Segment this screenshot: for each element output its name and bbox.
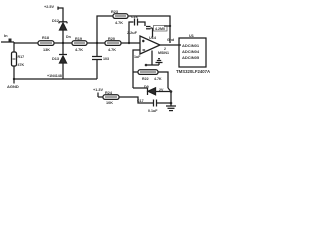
wire bias to R24 xyxy=(98,96,103,98)
svg-text:R19: R19 xyxy=(75,37,82,41)
svg-text:47K: 47K xyxy=(18,63,25,67)
svg-text:R20: R20 xyxy=(108,37,115,41)
pin stub xyxy=(179,44,181,46)
svg-text:+1N4148: +1N4148 xyxy=(47,74,62,78)
svg-text:TMS320LF2407A: TMS320LF2407A xyxy=(176,69,210,74)
svg-text:D12: D12 xyxy=(52,19,59,23)
svg-text:2: 2 xyxy=(164,47,166,51)
svg-text:C16: C16 xyxy=(131,15,138,19)
svg-text:R18: R18 xyxy=(42,36,49,40)
wire input to R18 xyxy=(14,42,38,44)
power +2.5V terminal xyxy=(57,7,59,10)
svg-text:2.2uF: 2.2uF xyxy=(127,31,138,35)
svg-text:R24: R24 xyxy=(105,91,113,95)
svg-text:R17: R17 xyxy=(18,55,25,59)
svg-text:Gnd: Gnd xyxy=(167,38,174,42)
svg-text:D9: D9 xyxy=(144,85,149,89)
wire diode to rail xyxy=(155,91,171,93)
wire node A up to feedback xyxy=(97,16,113,43)
node A junction xyxy=(96,42,98,44)
wire node B up to D12 xyxy=(62,30,64,43)
IC U1 box xyxy=(179,38,206,67)
svg-text:4.7K: 4.7K xyxy=(115,21,123,25)
resistor R23 xyxy=(113,14,128,19)
node ground junction xyxy=(13,78,15,80)
node C junction xyxy=(128,42,130,44)
svg-text:C17: C17 xyxy=(137,99,144,103)
wire node B down to D13 xyxy=(62,43,64,54)
svg-text:ADCIN04: ADCIN04 xyxy=(182,49,200,54)
svg-text:4.7K: 4.7K xyxy=(75,48,83,52)
svg-text:Dn: Dn xyxy=(66,35,71,39)
wire D12 to +2.5V xyxy=(58,8,63,22)
wire op-amp output xyxy=(160,44,179,46)
resistor R18 xyxy=(38,41,54,46)
node feedback tick xyxy=(164,25,171,27)
svg-text:ADCIN01: ADCIN01 xyxy=(182,43,200,48)
wire R23 to output rail xyxy=(128,16,170,43)
wire R18 to node B xyxy=(54,42,72,44)
ground small xyxy=(156,59,163,65)
wire feedback loop xyxy=(133,71,138,73)
svg-text:MSIN1: MSIN1 xyxy=(158,51,169,55)
svg-text:In: In xyxy=(4,33,8,38)
svg-text:4.7K: 4.7K xyxy=(154,77,162,81)
svg-text:2V: 2V xyxy=(159,88,164,92)
wire decoupling to op-amp top xyxy=(152,28,154,38)
wire D13 to AGND rail xyxy=(62,63,64,79)
node rail dot2 xyxy=(170,102,173,105)
node power dot xyxy=(145,64,148,67)
svg-text:R22: R22 xyxy=(142,77,149,81)
wire op-amp power pin xyxy=(151,51,153,66)
capacitor C16 xyxy=(129,19,145,44)
svg-text:0.1uF: 0.1uF xyxy=(148,109,158,113)
node rail dot1 xyxy=(170,90,173,93)
resistor R17 xyxy=(12,52,17,66)
wire R22 to output rail xyxy=(158,72,168,88)
svg-text:1uF: 1uF xyxy=(134,55,141,59)
resistor R24 xyxy=(103,95,119,100)
wire R20 to op-amp xyxy=(121,42,140,44)
wire input corner down xyxy=(13,42,15,52)
wire output rail down xyxy=(168,88,171,92)
ground AGND xyxy=(13,79,15,84)
svg-text:R23: R23 xyxy=(111,10,118,14)
svg-text:U14: U14 xyxy=(149,36,157,40)
wire input horizontal xyxy=(1,41,14,43)
wire rail to cap row xyxy=(170,92,172,104)
wire diode row left xyxy=(133,87,148,89)
op-amp U14 xyxy=(140,36,160,54)
node B junction xyxy=(62,42,64,44)
ground AGND2 xyxy=(166,103,176,111)
capacitor C18 small xyxy=(146,27,153,29)
svg-text:U1: U1 xyxy=(189,34,194,38)
wire inverting input down xyxy=(133,50,140,88)
capacitor C15 xyxy=(92,43,102,79)
svg-text:ADCIN05: ADCIN05 xyxy=(182,55,200,60)
svg-text:+2.5V: +2.5V xyxy=(44,5,54,9)
diode D12 xyxy=(59,22,67,30)
wire AGND rail xyxy=(14,78,97,80)
resistor R20 xyxy=(105,41,121,46)
resistor R22 xyxy=(138,70,158,75)
svg-text:AGND: AGND xyxy=(7,84,19,89)
svg-text:4.2M0: 4.2M0 xyxy=(155,27,165,31)
node In terminal xyxy=(9,39,12,42)
svg-text:103: 103 xyxy=(103,57,109,61)
power +1.3V terminal xyxy=(97,93,99,98)
svg-text:13K: 13K xyxy=(43,48,50,52)
resistor R19 xyxy=(72,41,87,46)
capacitor C17 xyxy=(154,100,172,107)
diode D14 xyxy=(148,88,156,96)
svg-text:10K: 10K xyxy=(106,101,113,105)
diode D13 xyxy=(59,55,67,64)
svg-text:+1.3V: +1.3V xyxy=(93,88,103,92)
wire R24 to C17 xyxy=(119,97,153,103)
svg-text:D13: D13 xyxy=(52,57,59,61)
svg-text:4.7K: 4.7K xyxy=(108,48,116,52)
wire R19 to node A xyxy=(87,42,105,44)
wire R17 bottom xyxy=(13,66,15,79)
